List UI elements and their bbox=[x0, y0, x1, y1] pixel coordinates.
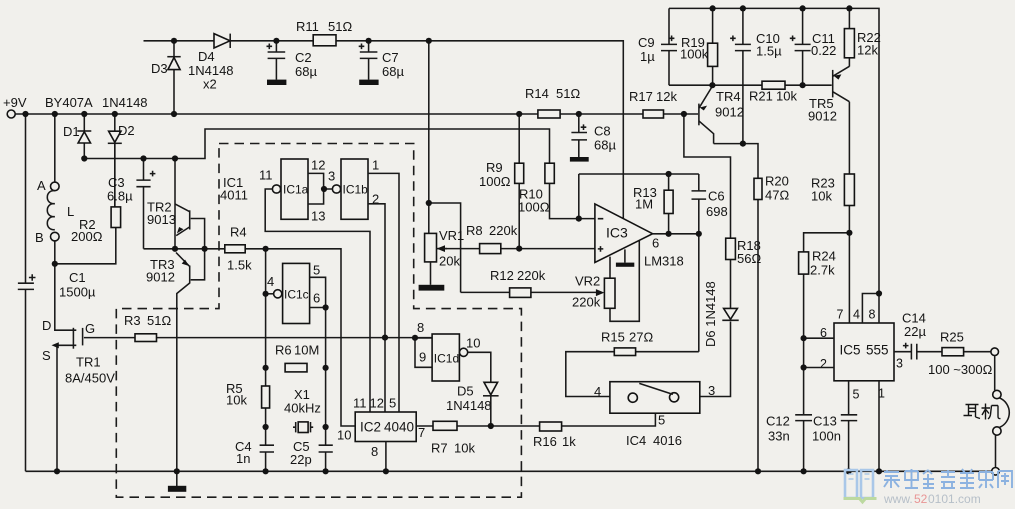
svg-text:D5: D5 bbox=[457, 384, 474, 399]
svg-text:1.5µ: 1.5µ bbox=[756, 44, 782, 59]
wire IC1d output to D5 bbox=[468, 352, 491, 382]
resistor R14 bbox=[525, 86, 580, 118]
wire VR1 riser from top rail bbox=[429, 41, 461, 293]
svg-text:C9: C9 bbox=[638, 35, 655, 50]
svg-text:R8: R8 bbox=[466, 223, 483, 238]
watermark Chinese text bbox=[884, 469, 1012, 488]
ground VR1 bbox=[419, 262, 445, 291]
svg-text:D3: D3 bbox=[151, 61, 168, 76]
svg-text:R24: R24 bbox=[812, 249, 836, 264]
svg-text:R21: R21 bbox=[749, 89, 773, 104]
svg-text:0.22: 0.22 bbox=[811, 43, 836, 58]
svg-text:IC1d: IC1d bbox=[434, 352, 459, 366]
wire IC1a feedback loop to IC2 pin11 bbox=[265, 189, 370, 412]
resistor R5 bbox=[226, 381, 270, 408]
capacitor C5 bbox=[290, 439, 333, 467]
wire R24 branch bbox=[804, 233, 850, 471]
svg-text:IC3: IC3 bbox=[606, 225, 628, 241]
node +9V terminal bbox=[3, 95, 27, 118]
svg-text:VR1: VR1 bbox=[439, 228, 464, 243]
svg-text:R6: R6 bbox=[275, 343, 292, 358]
IC U IC2 4040 bbox=[337, 396, 425, 460]
wire IC1b pin1 to IC2 pin5 bbox=[368, 158, 399, 413]
transistor TR4 bbox=[699, 86, 744, 144]
svg-text:5: 5 bbox=[853, 388, 860, 402]
svg-text:9012: 9012 bbox=[808, 109, 837, 124]
svg-text:TR1: TR1 bbox=[76, 355, 101, 370]
transistor TR2 bbox=[147, 200, 205, 249]
op-amp U IC1a gate bbox=[259, 159, 309, 219]
wire R15 line bbox=[566, 352, 699, 397]
wire IC1c output stubs bbox=[310, 263, 326, 308]
svg-text:R25: R25 bbox=[940, 330, 964, 345]
svg-text:10M: 10M bbox=[294, 343, 319, 358]
resistor R7 bbox=[431, 421, 475, 455]
wire R4 node column bbox=[265, 249, 267, 471]
transistor TR1 bbox=[42, 264, 115, 472]
wire emitter bus y85 bbox=[669, 84, 832, 86]
svg-text:VR2: VR2 bbox=[575, 274, 600, 289]
capacitor C9 bbox=[638, 8, 677, 85]
svg-text:12k: 12k bbox=[857, 43, 878, 58]
svg-text:1: 1 bbox=[372, 158, 379, 173]
svg-text:100Ω: 100Ω bbox=[518, 200, 550, 215]
svg-text:10: 10 bbox=[466, 336, 480, 351]
crystal X1 bbox=[284, 387, 321, 433]
svg-text:B: B bbox=[35, 230, 44, 245]
resistor R22 bbox=[844, 8, 880, 66]
svg-text:100Ω: 100Ω bbox=[479, 174, 511, 189]
wire C1 left branch bbox=[25, 114, 27, 471]
svg-text:68µ: 68µ bbox=[382, 64, 404, 79]
transistor TR5 bbox=[808, 66, 849, 123]
resistor R17 bbox=[629, 89, 677, 118]
wire switch pin3 to D6 bbox=[700, 322, 731, 397]
capacitor C4 bbox=[235, 439, 274, 466]
label earphone (Chinese) bbox=[964, 404, 1001, 420]
svg-text:100 ~300Ω: 100 ~300Ω bbox=[928, 362, 993, 377]
capacitor C2 bbox=[267, 41, 318, 85]
svg-text:10k: 10k bbox=[226, 393, 247, 408]
svg-text:IC2: IC2 bbox=[360, 420, 381, 435]
resistor R2 bbox=[71, 143, 121, 244]
wire top-right supply rail bbox=[669, 8, 879, 293]
svg-text:R7: R7 bbox=[431, 441, 448, 456]
svg-text:220k: 220k bbox=[489, 223, 518, 238]
svg-text:220k: 220k bbox=[572, 295, 601, 310]
op-amp U IC1b gate bbox=[341, 159, 368, 219]
svg-text:2: 2 bbox=[372, 192, 379, 207]
resistor R23 bbox=[811, 174, 854, 206]
watermark url bbox=[883, 492, 981, 506]
svg-text:3: 3 bbox=[896, 357, 903, 371]
svg-text:4016: 4016 bbox=[653, 433, 682, 448]
wire TR4 collector to R20 bbox=[714, 144, 758, 472]
switch IC4 4016 bbox=[594, 382, 715, 448]
svg-text:22p: 22p bbox=[290, 452, 312, 467]
svg-text:R4: R4 bbox=[230, 225, 247, 240]
resistor R11 bbox=[296, 19, 352, 46]
svg-text:1n: 1n bbox=[236, 451, 250, 466]
svg-text:D: D bbox=[42, 318, 51, 333]
svg-text:A: A bbox=[37, 178, 46, 193]
wire R12 line to VR2 bbox=[461, 289, 605, 296]
wire IC1b pin2 to IC2 pin12 bbox=[368, 192, 385, 413]
wire IC5 pin6 pin2 stubs bbox=[804, 338, 834, 367]
svg-text:L: L bbox=[67, 204, 74, 219]
svg-text:R12: R12 bbox=[490, 268, 514, 283]
svg-text:20k: 20k bbox=[439, 254, 460, 269]
resistor R13 bbox=[633, 174, 673, 234]
wire IC5 pin4 pin8 link bbox=[862, 294, 879, 324]
resistor R3 bbox=[124, 313, 171, 342]
capacitor C11 bbox=[790, 8, 837, 85]
wire gate R3 line to IC1d bbox=[84, 337, 432, 339]
svg-text:R3: R3 bbox=[124, 313, 141, 328]
wire R2 bottom link bbox=[55, 228, 116, 264]
wire second rail to R10 top bbox=[84, 129, 549, 163]
svg-text:2.7k: 2.7k bbox=[810, 263, 835, 278]
svg-text:10k: 10k bbox=[776, 89, 797, 104]
svg-text:IC5: IC5 bbox=[840, 343, 861, 358]
label IC1 4011 bbox=[220, 175, 248, 203]
capacitor C12 bbox=[766, 414, 812, 444]
op-amp U IC1d gate bbox=[415, 320, 480, 381]
svg-text:11: 11 bbox=[259, 168, 273, 183]
capacitor C6 bbox=[692, 174, 728, 234]
svg-text:G: G bbox=[85, 321, 95, 336]
capacitor C7 bbox=[359, 41, 405, 85]
resistor R18 bbox=[726, 238, 762, 266]
svg-text:D1: D1 bbox=[63, 124, 80, 139]
svg-text:4011: 4011 bbox=[220, 188, 248, 203]
wire signal to R4 and IC2 pin10 bbox=[144, 249, 356, 426]
svg-text:C7: C7 bbox=[382, 50, 399, 65]
svg-text:12k: 12k bbox=[656, 89, 677, 104]
svg-text:6: 6 bbox=[313, 291, 320, 306]
svg-text:220k: 220k bbox=[517, 268, 546, 283]
wire IC5 pin1 column bbox=[878, 381, 880, 472]
wire IC1c output column bbox=[325, 308, 327, 472]
svg-text:C6: C6 bbox=[708, 189, 725, 204]
svg-text:R14: R14 bbox=[525, 86, 549, 101]
svg-text:0101.com: 0101.com bbox=[928, 492, 981, 506]
node IC1b input bubble bbox=[332, 185, 340, 193]
wire main +9V rail bbox=[15, 113, 698, 115]
svg-text:698: 698 bbox=[706, 204, 728, 219]
svg-text:7: 7 bbox=[418, 425, 425, 440]
resistor R9 bbox=[479, 114, 524, 249]
resistor R25 bbox=[928, 330, 993, 378]
svg-text:4: 4 bbox=[594, 384, 601, 399]
potentiometer VR1 bbox=[425, 228, 465, 269]
ground IC3 bbox=[616, 249, 634, 266]
op-amp U IC1c gate bbox=[266, 263, 310, 323]
svg-text:5: 5 bbox=[389, 396, 396, 411]
svg-text:12: 12 bbox=[311, 158, 325, 173]
earphone jack bbox=[991, 348, 1009, 475]
svg-text:C1: C1 bbox=[69, 270, 86, 285]
svg-text:S: S bbox=[42, 348, 51, 363]
diode D1 bbox=[63, 114, 91, 159]
svg-text:www.: www. bbox=[883, 492, 913, 506]
svg-text:2: 2 bbox=[820, 357, 827, 371]
potentiometer VR2 bbox=[572, 241, 639, 321]
svg-text:40kHz: 40kHz bbox=[284, 401, 321, 416]
svg-text:7: 7 bbox=[837, 308, 844, 322]
svg-text:8A/450V: 8A/450V bbox=[65, 371, 115, 386]
svg-text:BY407A: BY407A bbox=[45, 95, 93, 110]
svg-text:68µ: 68µ bbox=[594, 138, 616, 153]
svg-text:4: 4 bbox=[267, 274, 274, 289]
svg-text:33n: 33n bbox=[768, 429, 790, 444]
svg-text:9012: 9012 bbox=[146, 270, 175, 285]
svg-text:1µ: 1µ bbox=[640, 49, 655, 64]
svg-text:6: 6 bbox=[652, 236, 659, 251]
svg-text:LM318: LM318 bbox=[644, 254, 684, 269]
svg-text:8: 8 bbox=[371, 444, 378, 459]
svg-text:51Ω: 51Ω bbox=[328, 19, 352, 34]
wire IC2 pin8 to ground bbox=[385, 442, 387, 472]
op-amp IC3 LM318 bbox=[595, 204, 684, 269]
capacitor C1 bbox=[18, 270, 96, 300]
watermark logo book bbox=[844, 470, 877, 502]
svg-text:x2: x2 bbox=[203, 77, 217, 92]
diode D2 bbox=[108, 114, 135, 207]
svg-text:TR4: TR4 bbox=[716, 89, 741, 104]
svg-text:6.8µ: 6.8µ bbox=[107, 189, 133, 204]
wire IC5 pin3 output bbox=[894, 351, 991, 353]
svg-text:10k: 10k bbox=[811, 189, 832, 204]
capacitor C3 bbox=[107, 159, 155, 249]
resistor R8 bbox=[466, 223, 518, 254]
svg-text:51Ω: 51Ω bbox=[556, 86, 580, 101]
svg-text:+9V: +9V bbox=[3, 95, 27, 110]
svg-text:R20: R20 bbox=[765, 174, 789, 189]
svg-text:IC1a: IC1a bbox=[283, 183, 309, 197]
svg-text:1N4148: 1N4148 bbox=[102, 95, 148, 110]
wire IC3 output bbox=[653, 234, 699, 352]
svg-text:9012: 9012 bbox=[715, 105, 744, 120]
svg-text:555: 555 bbox=[866, 343, 889, 358]
resistor R10 bbox=[518, 163, 595, 218]
wire TR4 base node to R18 bbox=[684, 114, 731, 238]
wire IC5 pin5 column bbox=[848, 381, 850, 472]
wire IC3 plus input bbox=[443, 248, 595, 250]
svg-text:47Ω: 47Ω bbox=[765, 188, 789, 203]
wire feedback node bbox=[579, 174, 699, 219]
svg-text:C8: C8 bbox=[594, 124, 611, 139]
svg-text:12: 12 bbox=[370, 396, 384, 411]
svg-text:10k: 10k bbox=[454, 441, 475, 456]
svg-text:27Ω: 27Ω bbox=[629, 330, 653, 345]
svg-text:5: 5 bbox=[658, 413, 665, 428]
svg-text:3: 3 bbox=[328, 169, 335, 184]
svg-text:100n: 100n bbox=[812, 429, 841, 444]
svg-text:11: 11 bbox=[353, 396, 367, 411]
svg-text:10: 10 bbox=[337, 428, 351, 443]
inductor L bbox=[47, 114, 74, 264]
resistor R4 bbox=[225, 225, 252, 273]
wire IC1a output stubs bbox=[308, 158, 335, 224]
ground main bbox=[168, 471, 186, 492]
svg-text:1M: 1M bbox=[635, 197, 653, 212]
svg-text:1500µ: 1500µ bbox=[59, 285, 96, 300]
svg-text:68µ: 68µ bbox=[295, 64, 317, 79]
svg-text:R15: R15 bbox=[601, 330, 625, 345]
svg-text:52: 52 bbox=[914, 492, 928, 506]
svg-text:22µ: 22µ bbox=[904, 324, 926, 339]
svg-text:200Ω: 200Ω bbox=[71, 229, 103, 244]
svg-text:IC1b: IC1b bbox=[343, 183, 369, 197]
dashed boundary box bbox=[116, 144, 521, 498]
svg-text:R11: R11 bbox=[296, 19, 319, 34]
wire top rail bbox=[144, 41, 624, 219]
capacitor C14 bbox=[902, 311, 926, 360]
capacitor C8 bbox=[570, 114, 617, 162]
svg-text:4040: 4040 bbox=[384, 420, 414, 435]
svg-text:100k: 100k bbox=[680, 47, 709, 62]
svg-text:R16: R16 bbox=[533, 434, 557, 449]
IC U IC5 555 bbox=[820, 308, 903, 402]
wire TR5 collector column bbox=[848, 102, 850, 323]
resistor R16 bbox=[533, 422, 576, 449]
capacitor C13 bbox=[812, 414, 857, 444]
resistor R6 bbox=[275, 343, 319, 372]
diode D4 bbox=[188, 34, 234, 92]
svg-text:R17: R17 bbox=[629, 89, 653, 104]
svg-text:51Ω: 51Ω bbox=[147, 313, 171, 328]
svg-text:IC4: IC4 bbox=[626, 433, 646, 448]
wire bottom ground rail bbox=[26, 470, 992, 472]
svg-text:1k: 1k bbox=[562, 434, 576, 449]
svg-text:D2: D2 bbox=[118, 123, 135, 138]
svg-text:8: 8 bbox=[417, 320, 424, 335]
svg-text:D6 1N4148: D6 1N4148 bbox=[703, 281, 718, 347]
svg-text:R9: R9 bbox=[486, 160, 503, 175]
svg-text:IC1c: IC1c bbox=[284, 288, 309, 302]
resistor R15 bbox=[601, 330, 653, 356]
svg-text:D4: D4 bbox=[198, 49, 215, 64]
svg-text:C13: C13 bbox=[813, 414, 837, 429]
diode D3 bbox=[151, 41, 181, 114]
resistor R20 bbox=[754, 174, 789, 203]
resistor R19 bbox=[680, 8, 718, 85]
svg-text:4: 4 bbox=[853, 308, 860, 322]
capacitor C10 bbox=[730, 8, 782, 143]
wire TR2 column bbox=[174, 159, 176, 249]
svg-text:13: 13 bbox=[311, 209, 325, 224]
svg-text:1N4148: 1N4148 bbox=[446, 398, 492, 413]
resistor R21 bbox=[749, 81, 797, 103]
svg-text:C12: C12 bbox=[766, 414, 790, 429]
diode D6 bbox=[703, 260, 739, 348]
svg-text:9013: 9013 bbox=[147, 212, 176, 227]
svg-text:1.5k: 1.5k bbox=[227, 258, 252, 273]
resistor R12 bbox=[490, 268, 546, 297]
diode D5 bbox=[446, 382, 499, 426]
svg-text:9: 9 bbox=[419, 350, 426, 365]
node B bbox=[35, 230, 59, 245]
wire IC2 pin7 output line bbox=[416, 413, 655, 426]
svg-text:8: 8 bbox=[869, 308, 876, 322]
node A bbox=[37, 178, 59, 193]
resistor R24 bbox=[799, 249, 836, 278]
svg-text:C2: C2 bbox=[295, 50, 312, 65]
transistor TR3 bbox=[146, 249, 205, 471]
svg-text:5: 5 bbox=[313, 263, 320, 278]
